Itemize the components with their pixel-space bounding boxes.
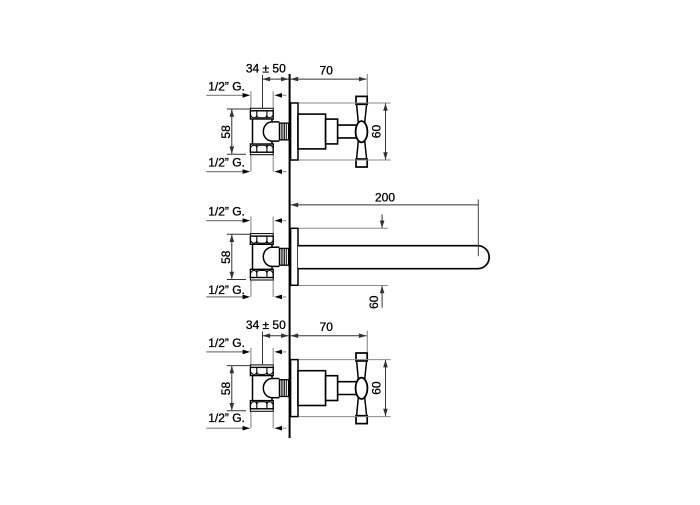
- dimension 70 line and arrows (top): [291, 77, 367, 82]
- middle valve inlet pipe stub bottom: [251, 280, 273, 297]
- top valve outlet tube: [272, 122, 280, 141]
- dimension 58 extension lines (middle): [227, 234, 250, 279]
- depth reference arrow top (bottom): [274, 350, 286, 355]
- dimension 34±50 extension line (bottom): [262, 332, 264, 366]
- dimension 58 line and arrows (middle): [230, 234, 235, 279]
- top valve valve dome arc: [263, 122, 272, 141]
- svg-text:34 ± 50: 34 ± 50: [246, 318, 286, 332]
- dimension 34±50 line and arrows (bottom): [263, 333, 289, 338]
- dimension 58 extension lines (bottom): [227, 366, 250, 411]
- middle valve top connection flange: [250, 234, 273, 237]
- top valve inlet pipe stub bottom: [251, 155, 273, 172]
- svg-text:1/2” G.: 1/2” G.: [208, 79, 245, 93]
- bottom handle upper blade: [357, 361, 367, 380]
- dimension 60 bottom arrow (middle): [380, 286, 385, 308]
- top valve bottom hex nut: [250, 144, 273, 152]
- middle valve valve dome arc: [263, 247, 272, 266]
- top cartridge step: [326, 119, 338, 144]
- dimension 34±50 extension line (top): [262, 75, 264, 109]
- top handle bottom cap: [356, 159, 367, 167]
- top wall escutcheon plate: [291, 103, 298, 160]
- depth reference arrow top (top): [274, 93, 286, 98]
- leader arrow 1/2" G. bottom (bottom): [206, 426, 250, 431]
- dimension 70 line and arrows (bottom): [291, 333, 367, 338]
- dimension 60 line and arrows (top): [383, 103, 388, 160]
- spout tube: [298, 246, 489, 269]
- bottom handle lower blade: [357, 396, 367, 415]
- bottom handle stem: [338, 382, 357, 395]
- leader arrow 1/2" G. bottom (top): [206, 169, 250, 174]
- bottom cartridge housing: [298, 371, 326, 406]
- dimension 60 top arrow (middle): [380, 214, 385, 228]
- bottom valve bottom connection flange: [250, 409, 273, 412]
- dimension 60 extension lines (bottom): [299, 360, 391, 417]
- depth reference arrow bottom (middle): [274, 295, 286, 300]
- bottom valve threaded nipple: [279, 380, 288, 397]
- svg-text:1/2” G.: 1/2” G.: [208, 336, 245, 350]
- dimension 200 line and arrows (middle): [291, 203, 479, 208]
- bottom cartridge step: [326, 376, 338, 401]
- top valve bottom connection flange: [250, 152, 273, 155]
- top handle lower blade: [357, 140, 367, 159]
- dimension 58 extension lines (top): [227, 109, 250, 154]
- leader arrow 1/2" G. bottom (middle): [206, 295, 250, 300]
- svg-text:1/2” G.: 1/2” G.: [208, 411, 245, 425]
- svg-text:200: 200: [375, 190, 395, 204]
- leader arrow 1/2" G. top (middle): [206, 218, 250, 223]
- leader arrow 1/2" G. top (bottom): [206, 350, 250, 355]
- svg-text:1/2” G.: 1/2” G.: [208, 155, 245, 169]
- top cartridge housing: [298, 114, 326, 149]
- middle valve bottom hex nut: [250, 269, 273, 277]
- top valve top connection flange: [250, 108, 273, 111]
- dimension 60 line and arrows (bottom): [383, 360, 388, 417]
- bottom handle top cap: [356, 353, 367, 361]
- top valve top hex nut: [250, 111, 273, 119]
- middle valve outlet tube: [272, 247, 280, 266]
- top handle stem: [338, 125, 357, 138]
- middle valve bottom connection flange: [250, 277, 273, 280]
- svg-text:1/2” G.: 1/2” G.: [208, 205, 245, 219]
- middle valve inlet pipe stub top: [251, 217, 273, 234]
- bottom wall escutcheon plate: [291, 360, 298, 417]
- svg-text:58: 58: [219, 125, 233, 139]
- bottom valve top hex nut: [250, 367, 273, 375]
- svg-text:70: 70: [320, 320, 334, 334]
- bottom valve inlet pipe stub top: [251, 348, 273, 365]
- top valve valve body column: [253, 119, 273, 144]
- bottom valve valve body column: [253, 376, 273, 401]
- top handle hub ellipse: [356, 121, 368, 142]
- middle valve threaded nipple: [279, 248, 288, 265]
- svg-text:58: 58: [219, 250, 233, 264]
- svg-text:70: 70: [320, 63, 334, 77]
- dimension 58 line and arrows (bottom): [230, 366, 235, 411]
- bottom valve outlet tube: [272, 379, 280, 398]
- dimension 60 extension lines (top): [299, 103, 391, 160]
- depth reference arrow top (middle): [274, 218, 286, 223]
- dimension 34±50 line and arrows (top): [263, 77, 289, 82]
- middle wall escutcheon plate: [291, 228, 298, 285]
- svg-text:60: 60: [367, 295, 381, 309]
- bottom valve top connection flange: [250, 365, 273, 368]
- top handle upper blade: [357, 104, 367, 123]
- dimension 70 extension line (bottom): [366, 331, 368, 353]
- svg-text:60: 60: [370, 125, 384, 139]
- middle valve valve body column: [253, 244, 273, 269]
- svg-text:58: 58: [219, 382, 233, 396]
- leader arrow 1/2" G. top (top): [206, 93, 250, 98]
- svg-text:1/2” G.: 1/2” G.: [208, 283, 245, 297]
- wall mounting line: [289, 74, 291, 438]
- dimension 70 extension line (top): [366, 74, 368, 96]
- depth reference arrow bottom (top): [274, 169, 286, 174]
- bottom valve valve dome arc: [263, 379, 272, 398]
- depth reference arrow bottom (bottom): [274, 426, 286, 431]
- top valve inlet pipe stub top: [251, 91, 273, 108]
- svg-text:34 ± 50: 34 ± 50: [246, 61, 286, 75]
- bottom handle bottom cap: [356, 416, 367, 424]
- dimension 58 line and arrows (top): [230, 109, 235, 154]
- top valve threaded nipple: [279, 123, 288, 140]
- svg-text:60: 60: [370, 381, 384, 395]
- dimension 200 extension line (middle): [477, 199, 479, 256]
- dimension 60 extension lines (middle): [299, 228, 388, 285]
- middle valve top hex nut: [250, 236, 273, 244]
- top handle top cap: [356, 96, 367, 104]
- bottom valve inlet pipe stub bottom: [251, 411, 273, 428]
- bottom handle hub ellipse: [356, 378, 368, 399]
- bottom valve bottom hex nut: [250, 401, 273, 409]
